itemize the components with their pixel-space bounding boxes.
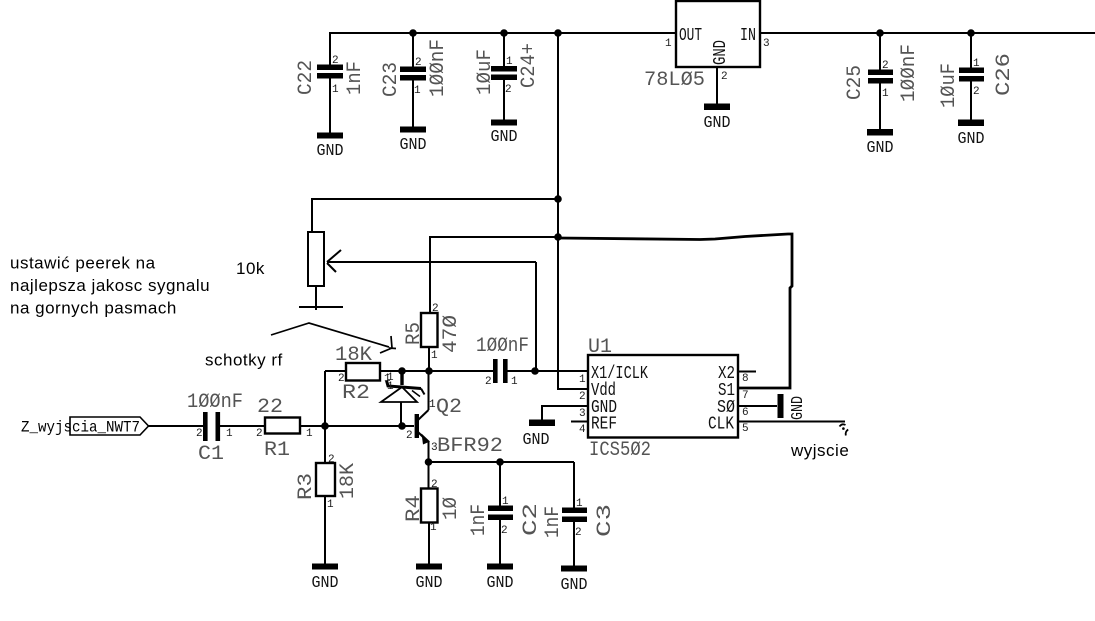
svg-text:3: 3 bbox=[579, 408, 586, 420]
capacitor 100nF coupling to X1 bbox=[476, 335, 529, 388]
svg-text:1: 1 bbox=[226, 428, 233, 440]
capacitor C23 bbox=[380, 32, 450, 128]
svg-text:REF: REF bbox=[591, 415, 617, 435]
wire U1 pin 8 stub bbox=[738, 371, 756, 373]
svg-text:R2: R2 bbox=[342, 382, 370, 405]
svg-text:1nF: 1nF bbox=[344, 61, 367, 95]
svg-text:1Ø: 1Ø bbox=[440, 497, 463, 520]
svg-text:1: 1 bbox=[414, 85, 421, 97]
svg-text:1ØØnF: 1ØØnF bbox=[427, 39, 450, 97]
svg-text:47Ø: 47Ø bbox=[440, 315, 463, 353]
wire base row bbox=[300, 425, 414, 427]
svg-text:R4: R4 bbox=[403, 495, 426, 522]
ground C2 bbox=[487, 564, 514, 594]
wire main feed from rail down to Vdd bbox=[558, 32, 588, 389]
wire top supply rail left of regulator bbox=[330, 32, 676, 34]
svg-text:1nF: 1nF bbox=[468, 504, 491, 536]
svg-text:GND: GND bbox=[312, 574, 339, 593]
svg-text:5: 5 bbox=[742, 423, 749, 435]
svg-text:2: 2 bbox=[485, 376, 492, 388]
svg-text:GND: GND bbox=[523, 431, 550, 450]
wire pot top branch bbox=[312, 199, 558, 233]
node junction feed rail bbox=[554, 29, 562, 37]
svg-text:22: 22 bbox=[257, 396, 283, 419]
svg-text:2: 2 bbox=[406, 430, 413, 442]
svg-text:1: 1 bbox=[502, 496, 509, 508]
svg-text:1nF: 1nF bbox=[542, 506, 565, 538]
net stub wyjscie arrowmark bbox=[840, 424, 846, 426]
svg-text:1: 1 bbox=[387, 381, 394, 393]
svg-text:R5: R5 bbox=[403, 322, 426, 345]
node junction C23 rail bbox=[409, 29, 417, 37]
svg-text:1: 1 bbox=[882, 88, 889, 100]
svg-text:8: 8 bbox=[742, 373, 749, 385]
svg-text:1: 1 bbox=[327, 499, 334, 511]
svg-text:najlepsza jakosc sygnalu: najlepsza jakosc sygnalu bbox=[10, 276, 210, 295]
ground C3 bbox=[561, 566, 588, 596]
resistor R3 bbox=[295, 426, 360, 564]
svg-text:R3: R3 bbox=[295, 473, 318, 500]
wire wiper drop to X1 node bbox=[535, 262, 537, 371]
svg-text:C1: C1 bbox=[198, 443, 224, 466]
ground C26 bbox=[958, 120, 985, 150]
svg-text:GND: GND bbox=[789, 396, 808, 420]
svg-text:1: 1 bbox=[506, 56, 513, 68]
net flag Z_wyjscia_NWT7 bbox=[21, 417, 203, 437]
svg-text:ustawić peerek na: ustawić peerek na bbox=[10, 254, 156, 273]
text annotation note bbox=[10, 254, 210, 318]
wire emitter row bbox=[429, 461, 575, 463]
svg-text:C24+: C24+ bbox=[518, 43, 541, 88]
svg-text:Z_wyjscia_NWT7: Z_wyjscia_NWT7 bbox=[21, 419, 140, 437]
svg-text:OUT: OUT bbox=[679, 26, 702, 46]
capacitor C1 bbox=[187, 391, 265, 466]
svg-text:C23: C23 bbox=[380, 62, 403, 97]
svg-text:2: 2 bbox=[505, 84, 512, 96]
ground 78L05 bbox=[704, 104, 731, 134]
regulator U 78L05 bbox=[644, 1, 770, 92]
svg-text:GND: GND bbox=[491, 128, 518, 147]
node junction C26 rail bbox=[967, 29, 975, 37]
svg-text:2: 2 bbox=[431, 479, 438, 491]
svg-text:C2: C2 bbox=[520, 503, 543, 536]
wire U1 pin 3 to ground bbox=[542, 406, 588, 420]
resistor R1 bbox=[256, 396, 313, 462]
wire regulator gnd pin bbox=[716, 67, 718, 105]
capacitor C3 bbox=[542, 462, 617, 566]
node junction C25 rail bbox=[876, 29, 884, 37]
ground R3 bbox=[312, 564, 339, 594]
svg-text:4: 4 bbox=[579, 424, 586, 436]
svg-text:1: 1 bbox=[665, 38, 672, 50]
svg-text:1: 1 bbox=[511, 376, 518, 388]
diode schottky bbox=[381, 371, 425, 426]
svg-text:1: 1 bbox=[332, 84, 339, 96]
svg-text:Q2: Q2 bbox=[436, 396, 462, 419]
ground C22 bbox=[317, 133, 344, 162]
ground R4 bbox=[416, 564, 443, 594]
resistor R5 bbox=[403, 303, 463, 371]
svg-text:1: 1 bbox=[576, 498, 583, 510]
node junction feed / pot top bbox=[554, 195, 562, 203]
ground C23 bbox=[400, 127, 427, 156]
svg-text:2: 2 bbox=[196, 428, 203, 440]
svg-text:1ØuF: 1ØuF bbox=[938, 63, 961, 108]
svg-text:3: 3 bbox=[763, 38, 770, 50]
svg-text:78LØ5: 78LØ5 bbox=[644, 69, 705, 92]
potentiometer 10k bbox=[308, 232, 536, 286]
svg-text:1ØØnF: 1ØØnF bbox=[187, 391, 243, 414]
svg-text:GND: GND bbox=[711, 40, 731, 65]
svg-text:GND: GND bbox=[958, 130, 985, 149]
svg-text:GND: GND bbox=[317, 142, 344, 161]
node junction feed / S1 branch bbox=[554, 233, 562, 241]
svg-text:7: 7 bbox=[742, 390, 749, 402]
svg-text:C3: C3 bbox=[594, 504, 617, 537]
svg-text:2: 2 bbox=[432, 303, 439, 315]
svg-text:1: 1 bbox=[431, 350, 438, 362]
capacitor C22 bbox=[295, 32, 367, 134]
capacitor C26 bbox=[938, 32, 1016, 121]
svg-text:1ØØnF: 1ØØnF bbox=[476, 335, 529, 358]
wire S1 branch (hand-wavy) bbox=[558, 234, 792, 388]
resistor R2 bbox=[325, 344, 391, 405]
transistor Q2 BFR92 bbox=[406, 371, 503, 462]
capacitor C24 bbox=[474, 32, 541, 121]
svg-text:10k: 10k bbox=[236, 259, 265, 278]
wire U1 pin 6 stub bbox=[738, 405, 777, 407]
node junction R5/collector bbox=[425, 367, 433, 375]
svg-text:18K: 18K bbox=[337, 463, 360, 499]
svg-text:C25: C25 bbox=[844, 65, 867, 100]
svg-text:CLK: CLK bbox=[708, 415, 734, 435]
svg-text:GND: GND bbox=[561, 576, 588, 595]
wire R5 top branch bbox=[430, 237, 558, 313]
svg-text:2: 2 bbox=[256, 428, 263, 440]
svg-text:C22: C22 bbox=[295, 60, 318, 95]
ground S0 (rotated) bbox=[778, 394, 809, 420]
resistor R4 bbox=[403, 462, 463, 564]
svg-text:2: 2 bbox=[575, 527, 582, 539]
svg-text:6: 6 bbox=[742, 407, 749, 419]
ground U1 pin 3 bbox=[523, 420, 556, 451]
svg-text:2: 2 bbox=[328, 454, 335, 466]
svg-text:BFR92: BFR92 bbox=[437, 435, 503, 458]
svg-text:na gornych pasmach: na gornych pasmach bbox=[10, 299, 177, 318]
ground pot bbox=[299, 306, 343, 308]
wire pot bottom bbox=[315, 286, 317, 310]
svg-text:schotky rf: schotky rf bbox=[205, 351, 283, 370]
svg-text:ICS5Ø2: ICS5Ø2 bbox=[589, 439, 651, 462]
node junction C24 rail bbox=[500, 29, 508, 37]
svg-text:1: 1 bbox=[579, 374, 586, 386]
node junction C2 bbox=[496, 458, 504, 466]
svg-text:2: 2 bbox=[721, 71, 728, 83]
wire top supply rail right of regulator bbox=[760, 32, 1095, 34]
svg-text:wyjscie: wyjscie bbox=[790, 441, 849, 460]
svg-text:1ØuF: 1ØuF bbox=[474, 49, 497, 95]
node junction diode/R2 bbox=[398, 367, 406, 375]
svg-text:GND: GND bbox=[400, 136, 427, 155]
svg-text:GND: GND bbox=[867, 139, 894, 158]
wire annotation arrow to diode bbox=[271, 323, 396, 353]
node junction wiper/X1 bbox=[531, 367, 539, 375]
svg-text:R1: R1 bbox=[264, 439, 290, 462]
svg-text:1: 1 bbox=[973, 58, 980, 70]
svg-text:2: 2 bbox=[415, 57, 422, 69]
svg-text:1: 1 bbox=[430, 522, 437, 534]
svg-text:1: 1 bbox=[306, 428, 313, 440]
svg-text:C26: C26 bbox=[993, 53, 1016, 96]
svg-text:1: 1 bbox=[429, 399, 436, 411]
svg-text:18K: 18K bbox=[335, 344, 372, 367]
node junction base/R1/R3 bbox=[321, 422, 329, 430]
svg-text:2: 2 bbox=[882, 60, 889, 72]
IC U1 ICS502 bbox=[579, 336, 749, 462]
node junction emitter bbox=[425, 458, 433, 466]
wire R2 left down to base node bbox=[324, 371, 326, 426]
svg-text:U1: U1 bbox=[588, 336, 612, 359]
svg-text:2: 2 bbox=[332, 55, 339, 67]
wire node row to U1 pin 1 bbox=[507, 370, 588, 372]
svg-text:GND: GND bbox=[487, 574, 514, 593]
svg-text:2: 2 bbox=[501, 525, 508, 537]
wire collector node row bbox=[380, 370, 493, 372]
svg-text:2: 2 bbox=[973, 86, 980, 98]
capacitor C2 bbox=[468, 462, 543, 564]
capacitor C25 bbox=[844, 32, 921, 130]
ground C25 bbox=[867, 129, 894, 158]
svg-text:GND: GND bbox=[704, 114, 731, 133]
wire U1 pin 4 REF stub bbox=[571, 421, 588, 423]
svg-text:2: 2 bbox=[579, 391, 586, 403]
wire CLK output bbox=[738, 421, 845, 423]
svg-text:IN: IN bbox=[740, 26, 756, 46]
svg-text:GND: GND bbox=[416, 574, 443, 593]
svg-text:1ØØnF: 1ØØnF bbox=[898, 44, 921, 102]
node junction base/diode bbox=[398, 422, 406, 430]
ground C24 bbox=[491, 120, 518, 148]
